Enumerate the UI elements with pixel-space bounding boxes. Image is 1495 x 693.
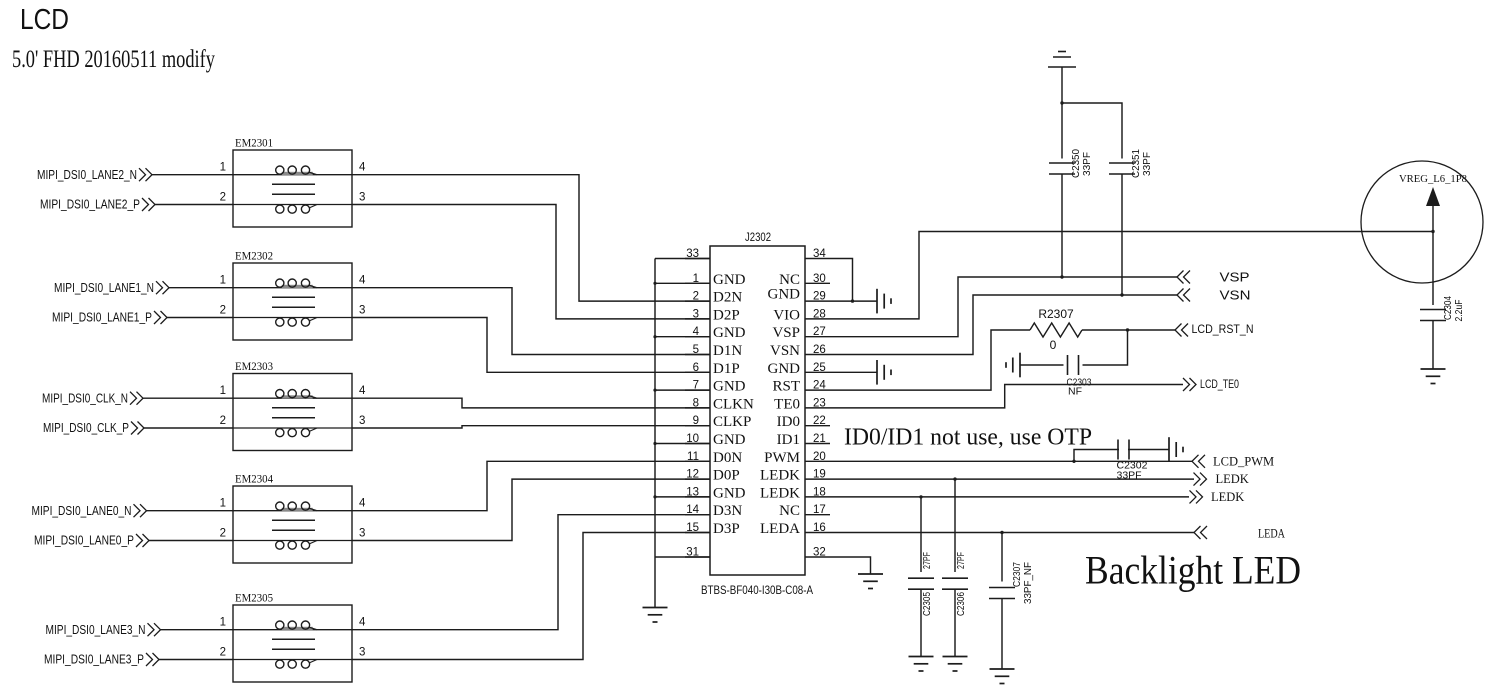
capacitor C2302 33PF: [1118, 440, 1129, 460]
svg-text:C2305: C2305: [921, 592, 933, 616]
junction GND bus pin 7: [653, 389, 656, 392]
svg-text:LEDA: LEDA: [760, 521, 800, 537]
ground (C2302): [1169, 437, 1183, 462]
svg-text:VSP: VSP: [1220, 270, 1250, 284]
svg-text:ID1: ID1: [777, 432, 800, 448]
pin 19 LEDK: [805, 478, 830, 480]
svg-text:1: 1: [693, 273, 699, 285]
svg-text:LEDK: LEDK: [760, 485, 800, 501]
svg-text:PWM: PWM: [764, 450, 800, 466]
svg-text:MIPI_DSI0_LANE2_N: MIPI_DSI0_LANE2_N: [37, 168, 137, 182]
junction pin34/pin29: [851, 299, 854, 302]
svg-text:18: 18: [813, 486, 826, 498]
capacitor C2350 33PF: [1049, 163, 1075, 174]
pin numbers EM2301: [220, 162, 366, 204]
pin 14 D3N: [685, 514, 710, 516]
svg-text:LEDK: LEDK: [1216, 472, 1249, 486]
svg-text:10: 10: [686, 433, 699, 445]
node VSP: [1177, 271, 1190, 284]
junction GND bus pin 4: [653, 335, 656, 338]
pin 4 GND: [685, 336, 710, 338]
wire MIPI_DSI0_LANE2_P to filter: [155, 204, 233, 206]
wire MIPI_DSI0_CLK_N to filter: [143, 397, 233, 399]
svg-text:34: 34: [813, 248, 826, 260]
wire LEDK to C2305: [920, 497, 922, 572]
wire gnd to C2350: [1061, 67, 1063, 159]
wire filter to J2302 pin 3 D2P: [352, 205, 710, 319]
svg-text:27PF: 27PF: [921, 552, 933, 569]
pin 20 PWM: [805, 460, 830, 462]
wire MIPI_DSI0_LANE3_N to filter: [161, 629, 234, 631]
svg-text:ID0/ID1 not use, use OTP: ID0/ID1 not use, use OTP: [844, 425, 1092, 451]
wire pin 32 to ground: [830, 557, 871, 574]
node LCD_RST_N: [1175, 324, 1188, 337]
svg-text:8: 8: [693, 397, 699, 409]
pin 6 D1P: [685, 371, 710, 373]
svg-text:3: 3: [693, 308, 699, 320]
svg-text:CLKN: CLKN: [713, 396, 754, 412]
wire MIPI_DSI0_LANE0_N to filter: [147, 510, 234, 512]
svg-text:MIPI_DSI0_CLK_P: MIPI_DSI0_CLK_P: [43, 421, 129, 435]
power source VREG_L6_1P8: [1361, 161, 1483, 283]
wire GND pin 13: [655, 496, 710, 498]
wire filter to J2302 pin 11 D0N: [352, 461, 710, 510]
svg-text:17: 17: [813, 504, 826, 516]
svg-text:D2P: D2P: [713, 307, 740, 323]
svg-text:LEDK: LEDK: [760, 468, 800, 484]
svg-text:NC: NC: [779, 503, 800, 519]
wire LEDA: [830, 532, 1194, 534]
svg-text:22: 22: [813, 415, 826, 427]
svg-text:12: 12: [686, 469, 699, 481]
wire C2302 to ground: [1128, 449, 1169, 451]
wire GND pin 4: [655, 336, 710, 338]
svg-text:19: 19: [813, 469, 826, 481]
wire filter to J2302 pin 12 D0P: [352, 479, 710, 540]
svg-text:GND: GND: [713, 432, 746, 448]
svg-text:LCD_TE0: LCD_TE0: [1200, 377, 1239, 391]
svg-text:EM2303: EM2303: [235, 359, 273, 373]
wire C2350 to VSP: [1061, 174, 1063, 277]
svg-text:MIPI_DSI0_LANE0_P: MIPI_DSI0_LANE0_P: [34, 534, 134, 548]
wire pin 29 GND: [830, 300, 877, 302]
svg-text:28: 28: [813, 308, 826, 320]
junction LEDA/C2307: [1000, 531, 1003, 534]
junction RST/C2303: [1126, 328, 1129, 331]
wire VIO to VREG_L6_1P8: [830, 232, 1433, 319]
svg-text:MIPI_DSI0_LANE2_P: MIPI_DSI0_LANE2_P: [40, 198, 140, 212]
svg-text:11: 11: [687, 451, 699, 463]
svg-text:9: 9: [693, 415, 699, 427]
pin 22 ID0: [805, 425, 830, 427]
svg-text:3: 3: [359, 192, 365, 204]
capacitor C2304: [1420, 310, 1446, 321]
svg-text:20: 20: [813, 451, 826, 463]
svg-text:LEDK: LEDK: [1211, 490, 1244, 504]
junction LEDK/C2306: [953, 477, 956, 480]
junction GND bus pin 1: [653, 282, 656, 285]
wire C2306 to ground: [954, 589, 956, 656]
svg-text:RST: RST: [772, 379, 800, 395]
ground (C2306): [943, 657, 968, 672]
pin 1 GND: [685, 282, 710, 284]
svg-text:EM2305: EM2305: [235, 591, 273, 605]
svg-text:MIPI_DSI0_LANE3_N: MIPI_DSI0_LANE3_N: [46, 623, 146, 637]
svg-text:24: 24: [813, 380, 826, 392]
connector J2302 body: [710, 246, 805, 575]
svg-text:TE0: TE0: [774, 396, 800, 412]
junction LEDK/C2305: [919, 495, 922, 498]
svg-text:4: 4: [359, 162, 366, 174]
svg-text:33: 33: [686, 248, 699, 260]
svg-text:EM2301: EM2301: [235, 136, 273, 150]
svg-text:D3N: D3N: [713, 503, 742, 519]
svg-text:29: 29: [813, 291, 826, 303]
pin 16 LEDA: [805, 532, 830, 534]
wire to C2303: [1083, 330, 1128, 365]
pin 11 D0N: [685, 460, 710, 462]
svg-text:4: 4: [359, 275, 366, 287]
pin 18 LEDK: [805, 496, 830, 498]
capacitor C2306: [942, 578, 968, 589]
svg-text:33PF: 33PF: [1081, 152, 1093, 176]
svg-text:2: 2: [220, 305, 226, 317]
node LEDA: [1194, 526, 1207, 539]
wire GND pin 31: [655, 556, 710, 558]
wire LEDK (pin 19): [830, 478, 1194, 480]
pin 33: [685, 258, 710, 260]
svg-text:EM2302: EM2302: [235, 249, 273, 263]
svg-text:VSN: VSN: [1220, 288, 1251, 302]
wire filter to J2302 pin 9 CLKP: [352, 426, 710, 428]
pin 30 NC: [805, 282, 830, 284]
svg-text:GND: GND: [768, 361, 801, 377]
svg-text:2.2uF: 2.2uF: [1453, 300, 1465, 322]
ground (C2307): [990, 669, 1015, 684]
wire LEDA to C2307: [1001, 533, 1003, 582]
wire filter to J2302 pin 15 D3P: [352, 533, 710, 660]
capacitor C2303 NF: [1068, 355, 1079, 375]
node LEDK: [1194, 473, 1207, 486]
svg-text:5: 5: [693, 344, 699, 356]
ground (C2350/C2351, inverted): [1048, 52, 1076, 68]
pin 13 GND: [685, 496, 710, 498]
svg-text:6: 6: [693, 362, 699, 374]
svg-text:7: 7: [693, 380, 699, 392]
wire GND pin 1: [655, 282, 710, 284]
pin 27 VSP: [805, 336, 830, 338]
svg-text:GND: GND: [713, 485, 746, 501]
junction VIO/VREG: [1431, 230, 1434, 233]
pin numbers EM2304: [220, 498, 366, 540]
pin 23 TE0: [805, 407, 830, 409]
svg-text:2: 2: [220, 647, 226, 659]
svg-text:VSN: VSN: [770, 343, 800, 359]
common-mode filter EM2302: [233, 263, 352, 340]
arrow (power): [1426, 187, 1440, 206]
svg-text:33PF_NF: 33PF_NF: [1022, 562, 1034, 604]
svg-text:CLKP: CLKP: [713, 414, 751, 430]
svg-text:D0P: D0P: [713, 468, 740, 484]
ground (C2304): [1421, 369, 1446, 384]
svg-text:3: 3: [359, 305, 365, 317]
svg-text:13: 13: [686, 486, 699, 498]
pin numbers EM2305: [220, 617, 366, 659]
svg-text:3: 3: [359, 528, 365, 540]
wire GND pin 10: [655, 443, 710, 445]
wire LEDK (pin 18): [830, 496, 1189, 498]
wire MIPI_DSI0_LANE1_N to filter: [169, 287, 233, 289]
svg-text:4: 4: [359, 498, 366, 510]
svg-text:2: 2: [220, 192, 226, 204]
capacitor C2351 33PF: [1109, 163, 1135, 174]
wire LEDK to C2306: [954, 479, 956, 572]
svg-text:D1P: D1P: [713, 361, 740, 377]
pin 21 ID1: [805, 443, 830, 445]
svg-text:NF: NF: [1068, 386, 1082, 398]
wire LCD_TE0: [830, 385, 1183, 408]
node LCD_PWM: [1192, 455, 1205, 468]
ground (C2305): [909, 657, 934, 672]
pin 3 D2P: [685, 318, 710, 320]
pin 7 GND: [685, 389, 710, 391]
svg-text:LEDA: LEDA: [1258, 527, 1285, 541]
wire C2305 to ground: [920, 589, 922, 656]
svg-text:1: 1: [220, 617, 226, 629]
wire C2351 to VSN: [1121, 174, 1123, 295]
svg-text:VREG_L6_1P8: VREG_L6_1P8: [1399, 173, 1467, 185]
pin 5 D1N: [685, 354, 710, 356]
common-mode filter EM2301: [233, 150, 352, 227]
svg-text:25: 25: [813, 362, 826, 374]
common-mode filter EM2303: [233, 374, 352, 451]
wire C2304 to ground: [1432, 321, 1434, 369]
common-mode filter EM2304: [233, 486, 352, 563]
svg-text:MIPI_DSI0_LANE1_N: MIPI_DSI0_LANE1_N: [54, 281, 154, 295]
junction gnd branch: [1060, 101, 1063, 104]
wire to C2302: [1074, 450, 1119, 462]
pin 34: [805, 258, 830, 260]
wire filter to J2302 pin 14 D3N: [352, 515, 710, 630]
svg-text:1: 1: [220, 498, 226, 510]
pin 9 CLKP: [685, 425, 710, 427]
pin 2 D2N: [685, 300, 710, 302]
node VSN: [1177, 289, 1190, 302]
svg-text:VIO: VIO: [773, 307, 800, 323]
pin 28 VIO: [805, 318, 830, 320]
resistor R2307: [1030, 323, 1082, 337]
svg-text:33PF: 33PF: [1141, 152, 1153, 176]
svg-text:27: 27: [813, 326, 826, 338]
wire C2307 to ground: [1001, 599, 1003, 669]
ground (C2303): [1006, 353, 1020, 378]
wire VREG to C2304: [1432, 206, 1434, 305]
svg-text:Backlight LED: Backlight LED: [1085, 548, 1301, 593]
svg-text:27PF: 27PF: [955, 552, 967, 569]
pin 25 GND: [805, 371, 830, 373]
junction C2351/VSN: [1120, 293, 1123, 296]
wire LCD_PWM: [830, 460, 1192, 462]
svg-text:5.0' FHD 20160511 modify: 5.0' FHD 20160511 modify: [12, 46, 215, 73]
wire VSN: [830, 295, 1177, 355]
svg-text:3: 3: [359, 415, 365, 427]
wire MIPI_DSI0_LANE0_P to filter: [149, 540, 233, 542]
svg-text:MIPI_DSI0_LANE0_N: MIPI_DSI0_LANE0_N: [32, 504, 132, 518]
svg-text:3: 3: [359, 647, 365, 659]
node GND bus: [654, 259, 656, 608]
pin 31: [685, 556, 710, 558]
pin 8 CLKN: [685, 407, 710, 409]
wire GND pin 33: [655, 258, 710, 260]
capacitor C2305: [908, 578, 934, 589]
svg-text:GND: GND: [713, 272, 746, 288]
svg-text:NC: NC: [779, 272, 800, 288]
junction GND bus pin 13: [653, 495, 656, 498]
svg-text:0: 0: [1050, 338, 1057, 352]
wire R2307 to LCD_RST_N: [1082, 329, 1175, 331]
wire GND pin 7: [655, 389, 710, 391]
svg-text:ID0: ID0: [777, 414, 800, 430]
svg-text:D1N: D1N: [713, 343, 742, 359]
svg-text:MIPI_DSI0_LANE1_P: MIPI_DSI0_LANE1_P: [52, 311, 152, 325]
svg-text:4: 4: [693, 326, 700, 338]
svg-text:32: 32: [813, 547, 826, 559]
svg-text:21: 21: [813, 433, 826, 445]
wire C2303 to ground: [1020, 364, 1064, 366]
wire filter to J2302 pin 2 D2N: [352, 175, 710, 301]
pin 17 NC: [805, 514, 830, 516]
svg-text:1: 1: [220, 275, 226, 287]
ground (pins 29/34): [877, 289, 891, 314]
svg-text:BTBS-BF040-I30B-C08-A: BTBS-BF040-I30B-C08-A: [701, 583, 813, 597]
svg-text:2: 2: [693, 291, 699, 303]
svg-text:D3P: D3P: [713, 521, 740, 537]
svg-text:MIPI_DSI0_LANE3_P: MIPI_DSI0_LANE3_P: [44, 653, 144, 667]
svg-text:R2307: R2307: [1038, 307, 1074, 321]
pin 10 GND: [685, 443, 710, 445]
svg-text:GND: GND: [713, 379, 746, 395]
ground (pin 25): [877, 360, 891, 385]
node LCD_TE0: [1183, 378, 1196, 391]
wire pin 34 to GND: [830, 259, 853, 302]
svg-text:LCD_RST_N: LCD_RST_N: [1192, 322, 1254, 336]
pin numbers EM2302: [220, 275, 366, 317]
pin 32: [805, 556, 830, 558]
svg-text:J2302: J2302: [745, 230, 771, 244]
pin 29 GND: [805, 300, 830, 302]
svg-text:1: 1: [220, 162, 226, 174]
svg-text:EM2304: EM2304: [235, 472, 273, 486]
wire filter to J2302 pin 5 D1N: [352, 288, 710, 355]
svg-text:31: 31: [686, 547, 699, 559]
wire MIPI_DSI0_LANE2_N to filter: [152, 174, 233, 176]
wire MIPI_DSI0_CLK_P to filter: [144, 427, 233, 429]
svg-text:23: 23: [813, 397, 826, 409]
capacitor C2307: [989, 588, 1015, 599]
pin 12 D0P: [685, 478, 710, 480]
svg-text:2: 2: [220, 528, 226, 540]
wire pin 25 GND: [830, 371, 877, 373]
svg-text:1: 1: [220, 385, 226, 397]
wire gnd to C2351: [1062, 103, 1122, 159]
pin numbers EM2303: [220, 385, 366, 427]
pin 26 VSN: [805, 354, 830, 356]
svg-text:GND: GND: [713, 325, 746, 341]
node LEDK (2): [1190, 490, 1203, 503]
svg-text:30: 30: [813, 273, 826, 285]
pin 24 RST: [805, 389, 830, 391]
wire MIPI_DSI0_LANE1_P to filter: [167, 317, 233, 319]
wire VSP: [830, 277, 1177, 337]
ground (pin 32): [858, 574, 883, 589]
junction GND bus pin 10: [653, 442, 656, 445]
svg-text:4: 4: [359, 385, 366, 397]
wire filter to J2302 pin 6 D1P: [352, 318, 710, 373]
svg-text:D2N: D2N: [713, 290, 742, 306]
junction PWM/C2302: [1072, 460, 1075, 463]
svg-text:C2306: C2306: [955, 592, 967, 616]
svg-text:4: 4: [359, 617, 366, 629]
svg-text:LCD_PWM: LCD_PWM: [1213, 454, 1274, 468]
svg-text:16: 16: [813, 522, 826, 534]
svg-text:26: 26: [813, 344, 826, 356]
svg-text:GND: GND: [768, 287, 801, 303]
pin 15 D3P: [685, 532, 710, 534]
wire MIPI_DSI0_LANE3_P to filter: [159, 659, 233, 661]
common-mode filter EM2305: [233, 605, 352, 682]
ground (J2302 GND pins): [643, 608, 668, 623]
svg-text:LCD: LCD: [20, 4, 69, 36]
svg-text:15: 15: [686, 522, 699, 534]
wire RST to R2307: [830, 330, 1030, 390]
svg-text:MIPI_DSI0_CLK_N: MIPI_DSI0_CLK_N: [42, 391, 128, 405]
svg-text:D0N: D0N: [713, 450, 742, 466]
svg-text:2: 2: [220, 415, 226, 427]
junction C2350/VSP: [1060, 275, 1063, 278]
wire filter to J2302 pin 8 CLKN: [352, 398, 710, 408]
svg-text:14: 14: [686, 504, 699, 516]
svg-text:VSP: VSP: [772, 325, 800, 341]
